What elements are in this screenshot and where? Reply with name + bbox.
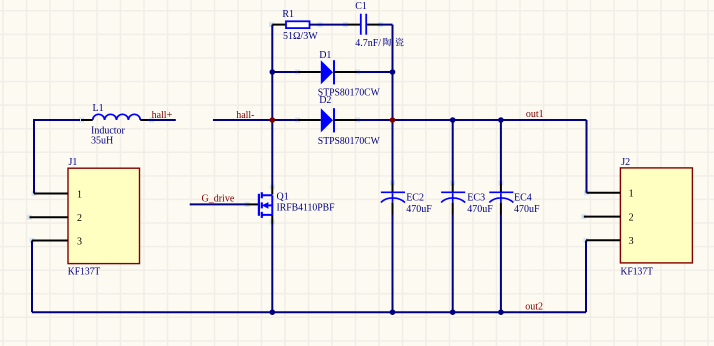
svg-text:out1: out1 — [526, 109, 544, 120]
svg-text:J2: J2 — [621, 157, 630, 168]
J1 pin 3 — [32, 236, 82, 247]
J2 pin 3 — [586, 236, 634, 247]
diode D1 — [318, 50, 381, 99]
junction at rail / EC3 — [450, 309, 456, 315]
wire hall+ horizontal to L1 — [33, 119, 93, 121]
junction at rail / Q1 source — [270, 309, 276, 315]
svg-text:D1: D1 — [319, 50, 331, 61]
svg-text:C1: C1 — [355, 1, 367, 12]
net label hall- — [236, 110, 254, 121]
J2 pin 2 — [584, 212, 634, 223]
svg-text:4.7nF/: 4.7nF/ — [355, 38, 381, 49]
wire left bus vertical — [271, 25, 273, 195]
J1 pin 1 — [34, 189, 82, 200]
svg-text:hall+: hall+ — [152, 110, 173, 121]
wire out2 up to J2 pin3 — [585, 241, 587, 313]
resistor R1 — [282, 9, 318, 42]
wire J1 pin3 down — [31, 241, 33, 313]
junction at out1 / EC4 — [498, 117, 504, 123]
net label hall+ — [152, 110, 173, 121]
wire hall- row — [213, 119, 272, 121]
wire EC4 top branch — [500, 120, 502, 192]
capacitor EC3 — [441, 192, 493, 215]
svg-text:KF137T: KF137T — [621, 266, 654, 277]
svg-text:IRFB4110PBF: IRFB4110PBF — [277, 202, 335, 213]
wire EC4 bottom to rail — [500, 203, 502, 313]
wire out1 row — [391, 119, 587, 121]
pin hotspot markers — [27, 22, 589, 243]
junction at out1 / EC3 — [450, 117, 456, 123]
wire EC3 top branch — [452, 120, 454, 192]
wire right bus vertical top — [392, 25, 394, 193]
diode D2 — [318, 95, 381, 147]
svg-text:35uH: 35uH — [91, 136, 113, 147]
svg-text:out2: out2 — [525, 302, 543, 313]
capacitor EC2 — [381, 192, 432, 215]
junction at rail / EC4 — [498, 309, 504, 315]
svg-text:KF137T: KF137T — [68, 266, 101, 277]
svg-text:1: 1 — [629, 189, 634, 200]
wire R1 to C1 — [309, 24, 360, 26]
wire EC3 bottom to rail — [452, 203, 454, 313]
J1 pin 2 — [30, 213, 83, 224]
svg-text:EC3: EC3 — [467, 193, 485, 204]
wire out1 down to J2 pin1 — [586, 120, 588, 193]
svg-text:STPS80170CW: STPS80170CW — [318, 136, 381, 147]
svg-text:Q1: Q1 — [277, 191, 289, 202]
transistor Q1 — [259, 191, 335, 218]
wire D1 anode pin — [272, 71, 321, 73]
inductor L1 — [91, 103, 140, 147]
svg-text:1: 1 — [77, 189, 82, 200]
junction at hall- / left bus — [270, 117, 276, 123]
J2 pin 1 — [587, 189, 634, 200]
svg-text:L1: L1 — [93, 103, 104, 114]
net label G_drive — [202, 194, 235, 205]
wire D2 anode pin — [272, 119, 321, 121]
junction at out1 / right bus — [390, 117, 396, 123]
connector J2 — [620, 157, 692, 277]
svg-text:51Ω/3W: 51Ω/3W — [283, 31, 318, 42]
net label out1 — [526, 109, 544, 120]
svg-text:R1: R1 — [282, 9, 294, 20]
svg-text:2: 2 — [629, 212, 634, 223]
svg-text:470uF: 470uF — [406, 204, 432, 215]
junction at rail / EC2 — [390, 309, 396, 315]
wire top row left / R1 pin — [272, 24, 286, 26]
svg-text:3: 3 — [77, 236, 82, 247]
svg-text:2: 2 — [77, 213, 82, 224]
svg-text:J1: J1 — [69, 157, 78, 168]
svg-text:470uF: 470uF — [467, 204, 493, 215]
junction at D1 anode bus — [270, 69, 276, 75]
svg-text:EC2: EC2 — [406, 193, 424, 204]
wire from L1 to hall+ end — [140, 119, 176, 121]
wire G_drive — [190, 203, 259, 205]
svg-text:G_drive: G_drive — [202, 194, 235, 205]
svg-text:3: 3 — [629, 236, 634, 247]
wire D1 cathode pin — [334, 71, 392, 73]
svg-text:EC4: EC4 — [514, 193, 532, 204]
net label out2 — [525, 302, 543, 313]
wire Q1 source pin down — [271, 215, 273, 312]
wire bottom rail — [32, 311, 586, 313]
svg-text:STPS80170CW: STPS80170CW — [318, 87, 381, 98]
wire EC2 bottom to rail — [392, 203, 394, 313]
wire D2 cathode pin — [334, 119, 391, 121]
wire C1 to right bus — [367, 24, 392, 26]
capacitor C1 — [355, 1, 403, 49]
svg-text:470uF: 470uF — [514, 204, 540, 215]
wire hall+ vertical from J1 pin1 — [33, 120, 35, 194]
connector J1 — [68, 157, 140, 278]
junction at D1 cathode bus — [390, 69, 396, 75]
capacitor EC4 — [489, 192, 540, 215]
